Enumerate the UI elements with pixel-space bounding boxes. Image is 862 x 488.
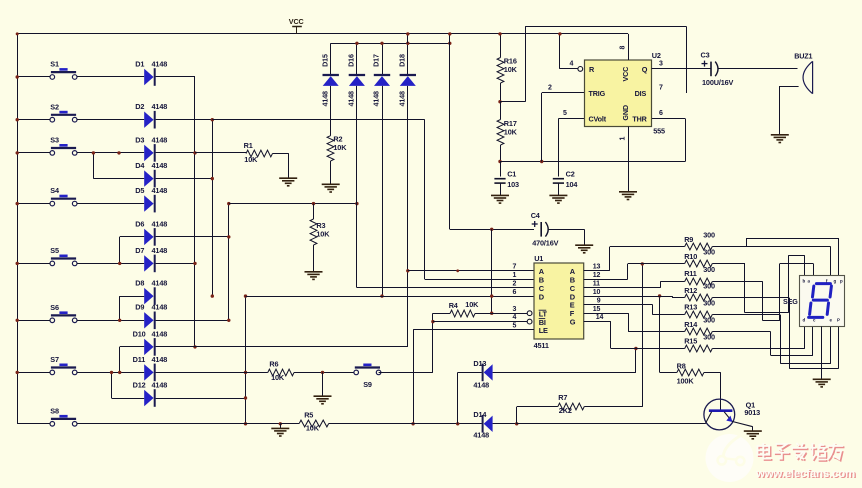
wire CVolt to C2 xyxy=(558,118,584,120)
svg-text:100U/16V: 100U/16V xyxy=(702,78,734,87)
junction S3 branch xyxy=(92,151,95,154)
svg-text:D1: D1 xyxy=(135,59,144,68)
wire R10 to display xyxy=(712,263,745,265)
svg-text:4511: 4511 xyxy=(534,341,549,350)
capacitor C1 103 xyxy=(500,162,502,177)
wire S2 col to pin B xyxy=(424,120,426,280)
svg-text:7: 7 xyxy=(659,85,663,92)
svg-text:P: P xyxy=(837,318,840,323)
diode D2 4148 xyxy=(144,112,153,128)
junction D18 top xyxy=(406,42,409,45)
wire R6 to S9 xyxy=(294,372,356,374)
junction col C S4 row xyxy=(227,202,230,205)
wire S4 row bus xyxy=(229,203,357,205)
wire R4 left to S9 xyxy=(432,313,434,372)
svg-text:4148: 4148 xyxy=(397,91,406,107)
wire R16 top xyxy=(500,34,502,58)
wire D10 row to D18 col xyxy=(156,346,408,348)
resistor R6 10K xyxy=(268,369,294,376)
svg-text:11: 11 xyxy=(593,280,600,287)
junction col C S6 row xyxy=(227,319,230,322)
wire BI circle xyxy=(527,319,532,324)
svg-text:4148: 4148 xyxy=(152,102,168,111)
svg-text:GND: GND xyxy=(621,105,630,121)
junction top link right xyxy=(448,42,451,45)
junction bus S1 xyxy=(16,75,19,78)
diode D6 4148 xyxy=(144,229,153,245)
svg-text:4148: 4148 xyxy=(473,380,489,389)
svg-text:R9: R9 xyxy=(684,235,693,244)
junction C4 leg pin D xyxy=(490,294,493,297)
junction bus-rail xyxy=(16,32,19,35)
svg-text:12: 12 xyxy=(593,272,601,279)
switch S8 xyxy=(51,418,76,420)
junction C4 leg xyxy=(490,228,493,231)
ground R1 xyxy=(279,177,297,179)
svg-text:4: 4 xyxy=(513,314,517,321)
display digit 8 xyxy=(816,282,830,285)
svg-text:D16: D16 xyxy=(347,54,356,67)
wire left bus xyxy=(17,34,19,424)
svg-text:6: 6 xyxy=(513,289,517,296)
svg-text:SEG: SEG xyxy=(783,297,798,306)
wire R1 to ground xyxy=(273,153,289,155)
junction TRIG tap xyxy=(540,160,543,163)
diode D1 4148 xyxy=(144,69,153,85)
wire R16R17 to DIS riser xyxy=(500,101,525,103)
svg-text:300: 300 xyxy=(703,248,715,257)
svg-text:U1: U1 xyxy=(534,254,543,263)
wire C4 leg to U1 xyxy=(491,229,493,313)
wire D12 branch from S7 xyxy=(111,372,113,398)
wire S9 right xyxy=(379,372,433,374)
ic U2 555 timer xyxy=(585,60,652,127)
ground Q1 xyxy=(744,430,762,432)
svg-text:300: 300 xyxy=(703,299,715,308)
wire S6 row to diode xyxy=(77,320,144,322)
ground C2 xyxy=(549,194,567,196)
display SEG body xyxy=(800,276,845,327)
junction ground tap xyxy=(321,371,324,374)
resistor R2 10K xyxy=(327,136,334,161)
junction bus S7 xyxy=(16,371,19,374)
wire D12 out xyxy=(156,398,246,400)
svg-text:U2: U2 xyxy=(652,51,661,60)
ground C1 xyxy=(491,194,509,196)
wire R8 to base xyxy=(704,372,721,374)
svg-text:D10: D10 xyxy=(133,329,146,338)
ic U1 4511 body xyxy=(534,263,584,339)
svg-text:THR: THR xyxy=(632,115,647,124)
svg-text:4148: 4148 xyxy=(473,430,489,439)
svg-text:4148: 4148 xyxy=(347,91,356,107)
wire S5 row left xyxy=(17,263,50,265)
svg-text:D: D xyxy=(539,292,545,301)
wire U1 pin to R15 xyxy=(584,321,611,323)
junction S6 branch xyxy=(118,319,121,322)
svg-text:9: 9 xyxy=(597,297,601,304)
junction D13 R15 net xyxy=(634,347,637,350)
switch S3 xyxy=(51,147,76,149)
svg-text:S5: S5 xyxy=(50,246,59,255)
diode D4 4148 xyxy=(144,170,153,186)
ground BUZ1 xyxy=(771,134,789,136)
diode D18 4148 xyxy=(407,43,409,74)
wire D2 out xyxy=(156,119,213,121)
diode D10 4148 xyxy=(144,339,153,355)
svg-text:D5: D5 xyxy=(135,186,144,195)
svg-text:S4: S4 xyxy=(50,186,60,195)
wire D9 out xyxy=(156,320,229,322)
wire THR loop xyxy=(685,119,687,162)
svg-text:4: 4 xyxy=(570,61,574,68)
svg-text:4148: 4148 xyxy=(152,380,168,389)
svg-text:1: 1 xyxy=(513,272,517,279)
wire D17 column xyxy=(382,86,384,296)
wire LT line xyxy=(492,313,528,315)
junction D17 pin D line xyxy=(380,294,383,297)
wire S7 row left xyxy=(17,372,50,374)
svg-text:10K: 10K xyxy=(465,300,479,309)
svg-text:DIS: DIS xyxy=(635,89,647,98)
svg-text:10K: 10K xyxy=(504,65,518,74)
power port VCC xyxy=(296,26,298,34)
watermark text xyxy=(759,444,845,461)
wire 555 gnd pin 1 xyxy=(628,127,630,192)
svg-text:R1: R1 xyxy=(244,141,253,150)
junction R5 ground tap xyxy=(279,422,282,425)
junction bus S5 xyxy=(16,262,19,265)
wire S1 row left xyxy=(17,76,50,78)
wire C3 to buzzer xyxy=(718,68,797,70)
wire S8 row right xyxy=(77,423,144,425)
wire S2 row left xyxy=(17,119,50,121)
svg-text:4148: 4148 xyxy=(152,135,168,144)
switch S2 xyxy=(51,114,76,116)
wire R11 to display xyxy=(712,281,762,283)
svg-text:R14: R14 xyxy=(684,320,698,329)
wire S2 row to U1 B column xyxy=(212,119,424,121)
wire R7 line xyxy=(517,406,558,408)
svg-text:D11: D11 xyxy=(133,355,146,364)
svg-text:LE: LE xyxy=(539,326,548,335)
svg-text:4148: 4148 xyxy=(152,219,168,228)
wire S7 row to diode xyxy=(77,372,144,374)
wire S8 row to R5 xyxy=(77,423,280,425)
wire column B collect xyxy=(212,120,214,296)
wire U1 pin to R9 xyxy=(584,270,610,272)
watermark logo xyxy=(706,434,754,482)
wire U1 pin to R11 xyxy=(584,287,661,289)
wire R15 to display xyxy=(712,348,805,350)
svg-text:R5: R5 xyxy=(304,410,313,419)
svg-text:300: 300 xyxy=(703,282,715,291)
resistor R9 300 xyxy=(685,243,713,250)
svg-text:D7: D7 xyxy=(135,246,144,255)
wire BI line xyxy=(433,321,527,323)
wire D10 branch from S7 xyxy=(119,347,121,373)
resistor R11 300 xyxy=(685,278,713,285)
wire S3 row to R1 xyxy=(195,152,246,154)
svg-text:10: 10 xyxy=(593,289,601,296)
wire U1 pin to R14 xyxy=(584,313,629,315)
svg-text:D17: D17 xyxy=(372,54,381,67)
wire R9 jog to display pin p xyxy=(746,238,748,247)
svg-text:D9: D9 xyxy=(135,303,144,312)
wire R12 to display xyxy=(712,297,789,299)
junction S5 branch xyxy=(118,262,121,265)
wire S6 row left xyxy=(17,320,50,322)
junction net stub xyxy=(456,269,459,272)
svg-text:10K: 10K xyxy=(504,127,518,136)
wire to R5 xyxy=(280,423,299,425)
svg-text:15: 15 xyxy=(593,306,601,313)
wire S5 row to diode xyxy=(77,263,144,265)
switch S1 xyxy=(51,71,76,73)
svg-text:D15: D15 xyxy=(320,54,329,67)
junction C4 leg LT xyxy=(490,312,493,315)
svg-text:S7: S7 xyxy=(50,355,59,364)
junction D7 col A xyxy=(156,263,195,265)
ground R3 xyxy=(305,271,323,273)
capacitor C3 100U/16V xyxy=(710,62,712,77)
svg-text:300: 300 xyxy=(703,231,715,240)
junction R17 C1 node xyxy=(498,160,501,163)
diode D13 4148 xyxy=(458,372,482,374)
wire R3 to ground xyxy=(313,245,315,272)
svg-text:D2: D2 xyxy=(135,102,144,111)
wire R16 bottom xyxy=(500,83,502,102)
svg-text:Q: Q xyxy=(642,65,648,74)
wire LE line xyxy=(413,329,534,331)
wire tap ground xyxy=(280,424,282,429)
diode D17 4148 xyxy=(382,43,384,74)
resistor R8 100K xyxy=(659,296,661,373)
wire R9 to display xyxy=(712,246,831,248)
svg-text:4148: 4148 xyxy=(152,355,168,364)
svg-text:9013: 9013 xyxy=(744,408,760,417)
svg-text:D6: D6 xyxy=(135,219,144,228)
svg-text:www.elecfans.com: www.elecfans.com xyxy=(755,468,855,480)
svg-text:7: 7 xyxy=(513,264,517,271)
svg-text:10K: 10K xyxy=(306,424,320,433)
diode D16 4148 xyxy=(356,43,358,74)
switch S4 xyxy=(51,198,76,200)
resistor R16 10K xyxy=(497,58,504,84)
svg-text:R: R xyxy=(589,65,595,74)
svg-text:C2: C2 xyxy=(566,169,575,178)
svg-text:R11: R11 xyxy=(684,269,697,278)
resistor R10 300 xyxy=(685,260,713,267)
svg-text:G: G xyxy=(570,318,576,327)
switch S7 xyxy=(51,366,76,368)
wire D18 to rail xyxy=(407,34,409,43)
wire D13 out xyxy=(493,372,636,374)
capacitor C2 104 xyxy=(553,178,564,180)
svg-text:S9: S9 xyxy=(363,380,372,389)
diode D15 4148 xyxy=(330,43,332,74)
svg-text:6: 6 xyxy=(659,110,663,117)
svg-text:VCC: VCC xyxy=(289,17,304,26)
svg-text:1: 1 xyxy=(619,137,626,141)
wire S8 row left xyxy=(17,423,50,425)
svg-text:10K: 10K xyxy=(271,373,285,382)
junction D3 col A xyxy=(156,152,195,154)
wire reset pin 4 xyxy=(559,34,561,69)
svg-text:13: 13 xyxy=(593,264,601,271)
wire R17 bottom xyxy=(500,145,502,162)
junction bus S3 xyxy=(16,151,19,154)
wire D8 branch from S6 xyxy=(119,296,121,320)
svg-text:S3: S3 xyxy=(50,136,59,145)
wire 555 vcc pin 8 xyxy=(628,34,630,60)
wire R14 to display xyxy=(712,331,770,333)
wire S4 row to diode xyxy=(77,203,144,205)
svg-text:3: 3 xyxy=(659,61,663,68)
diode D3 4148 xyxy=(144,145,153,161)
svg-text:555: 555 xyxy=(653,127,665,136)
svg-text:10K: 10K xyxy=(333,143,347,152)
resistor R1 10K xyxy=(246,150,273,157)
svg-text:D18: D18 xyxy=(397,54,406,67)
svg-text:2K2: 2K2 xyxy=(559,406,572,415)
svg-text:104: 104 xyxy=(566,180,579,189)
buzzer BUZ1 xyxy=(803,61,813,93)
junction D4 col xyxy=(211,177,214,180)
svg-text:S1: S1 xyxy=(50,60,59,69)
resistor R17 10K xyxy=(500,102,502,120)
wire D6 branch from S5 xyxy=(119,237,121,264)
svg-text:4148: 4148 xyxy=(152,59,168,68)
ground SEG xyxy=(813,378,831,380)
wire D15 to R2 xyxy=(330,86,332,136)
wire timing node xyxy=(500,161,685,163)
junction R16 R17 DIS xyxy=(498,100,501,103)
diode D9 4148 xyxy=(144,312,153,328)
wire C4 left xyxy=(450,229,534,231)
svg-text:R8: R8 xyxy=(677,362,686,371)
junction D6 col xyxy=(227,235,230,238)
junction R7 to R10 net xyxy=(641,262,644,265)
wire S4 row left xyxy=(17,203,50,205)
resistor R13 300 xyxy=(685,311,713,318)
wire TRIG xyxy=(541,93,543,162)
junction col B D8 row xyxy=(211,294,214,297)
svg-text:2: 2 xyxy=(513,280,517,287)
svg-text:3: 3 xyxy=(513,306,517,313)
wire tap to ground xyxy=(322,372,324,396)
wire S3 row left xyxy=(17,152,50,154)
diode D14 4148 xyxy=(482,415,484,433)
svg-text:D14: D14 xyxy=(473,410,487,419)
svg-text:4148: 4148 xyxy=(320,91,329,107)
svg-text:D12: D12 xyxy=(133,380,146,389)
junction col D S7 row xyxy=(244,371,247,374)
svg-text:C4: C4 xyxy=(531,211,541,220)
svg-text:C3: C3 xyxy=(701,50,710,59)
wire LT circle xyxy=(527,311,532,316)
junction bus S6 xyxy=(16,319,19,322)
svg-text:4148: 4148 xyxy=(152,161,168,170)
svg-text:D4: D4 xyxy=(135,161,145,170)
junction D12 col xyxy=(244,396,247,399)
wire R5 to D14 xyxy=(329,423,482,425)
svg-text:S8: S8 xyxy=(50,406,59,415)
wire VCC rail xyxy=(17,33,628,35)
junction D13 leg xyxy=(456,422,459,425)
resistor R14 300 xyxy=(685,328,713,335)
wire C2 to ground xyxy=(558,183,560,195)
wire U1 pin to R10 xyxy=(584,279,628,281)
svg-text:10K: 10K xyxy=(316,229,330,238)
junction D18 rail xyxy=(406,32,409,35)
wire D14 out xyxy=(493,423,517,425)
svg-text:R13: R13 xyxy=(684,303,697,312)
svg-text:R12: R12 xyxy=(684,286,697,295)
junction bus S2 xyxy=(16,118,19,121)
diode D11 4148 xyxy=(144,364,153,380)
junction rail pin4 xyxy=(558,32,561,35)
wire 555 output xyxy=(652,68,712,70)
svg-text:4148: 4148 xyxy=(372,91,381,107)
junction R8 to pin10 net xyxy=(658,294,661,297)
wire S3 row to diode xyxy=(77,152,144,154)
svg-text:D8: D8 xyxy=(135,279,144,288)
wire R2 to ground xyxy=(330,161,332,184)
wire R13 to display xyxy=(712,314,780,316)
diode D8 4148 xyxy=(144,288,153,304)
wire D18 column xyxy=(407,86,409,347)
wire S7 row to R6 xyxy=(246,372,268,374)
wire S2 row to diode xyxy=(77,119,144,121)
junction D18 pin A line xyxy=(406,269,409,272)
svg-text:300: 300 xyxy=(703,265,715,274)
junction D17 top xyxy=(380,42,383,45)
junction LE R5 line xyxy=(411,422,414,425)
svg-text:R6: R6 xyxy=(269,360,278,369)
resistor R3 10K xyxy=(313,204,315,219)
junction col D S8 row xyxy=(244,422,247,425)
wire column C collect xyxy=(228,204,230,321)
svg-text:100K: 100K xyxy=(677,377,695,386)
junction col A D10 row xyxy=(193,345,196,348)
wire column A collect xyxy=(194,77,196,347)
svg-text:S2: S2 xyxy=(50,102,59,111)
wire D6 out xyxy=(156,236,229,238)
junction D16 top xyxy=(355,42,358,45)
ground S7 row xyxy=(314,395,332,397)
resistor R5 10K xyxy=(299,420,329,427)
ground R2 xyxy=(322,183,340,185)
wire R7 riser xyxy=(516,407,518,424)
wire base line to Q1 xyxy=(517,423,706,425)
wire C1 to ground xyxy=(500,183,502,195)
junction S3 row net xyxy=(117,151,120,154)
wire D16 column to pin C xyxy=(356,86,358,288)
junction R3 tap xyxy=(312,202,315,205)
resistor R7 2K2 xyxy=(558,403,584,410)
diode D5 4148 xyxy=(144,195,153,211)
diode D7 4148 xyxy=(144,255,153,271)
svg-text:R15: R15 xyxy=(684,337,697,346)
junction rail R16 xyxy=(498,32,501,35)
resistor R4 10K xyxy=(433,313,450,315)
svg-text:103: 103 xyxy=(507,180,519,189)
switch S5 xyxy=(51,257,76,259)
svg-text:4148: 4148 xyxy=(152,329,168,338)
ground C4 xyxy=(575,244,593,246)
junction S7 branch xyxy=(118,371,121,374)
